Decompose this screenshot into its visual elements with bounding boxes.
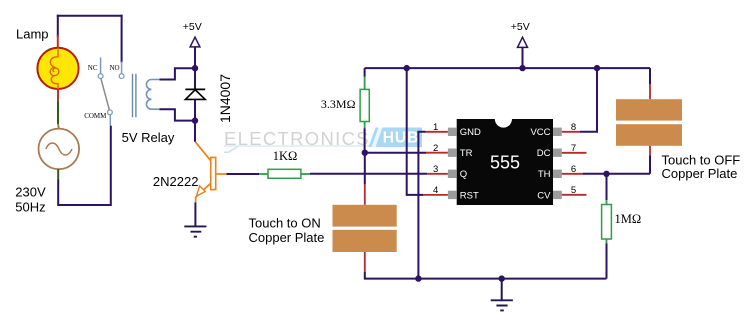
svg-text:TR: TR [460,148,473,159]
svg-text:3: 3 [433,164,438,175]
svg-text:+5V: +5V [511,21,530,33]
svg-text:NO: NO [109,64,119,72]
svg-text:CV: CV [537,190,551,201]
svg-text:1MΩ: 1MΩ [615,212,642,226]
svg-text:1: 1 [433,122,438,133]
svg-text:5V Relay: 5V Relay [122,130,175,145]
svg-text:230V: 230V [15,185,46,200]
svg-text:NC: NC [88,64,98,72]
svg-text:TH: TH [538,169,551,180]
svg-text:Q: Q [460,169,467,180]
svg-text:50Hz: 50Hz [15,200,45,215]
svg-text:Lamp: Lamp [16,27,49,42]
svg-text:3.3MΩ: 3.3MΩ [321,97,356,111]
svg-text:4: 4 [433,185,438,196]
svg-text:555: 555 [490,152,520,172]
svg-text:2: 2 [433,143,438,154]
svg-text:+5V: +5V [183,21,202,33]
svg-text:HUB: HUB [383,130,420,147]
svg-text:1N4007: 1N4007 [217,74,233,123]
svg-text:DC: DC [537,148,551,159]
svg-text:Copper Plate: Copper Plate [249,230,325,245]
svg-text:Copper Plate: Copper Plate [662,166,738,181]
svg-text:1KΩ: 1KΩ [273,149,298,163]
svg-text:VCC: VCC [530,127,550,138]
svg-text:2N2222: 2N2222 [153,174,199,189]
svg-text:RST: RST [460,190,479,201]
svg-text:Touch to ON: Touch to ON [249,216,321,231]
svg-text:COMM: COMM [84,112,107,120]
svg-text:GND: GND [460,127,481,138]
